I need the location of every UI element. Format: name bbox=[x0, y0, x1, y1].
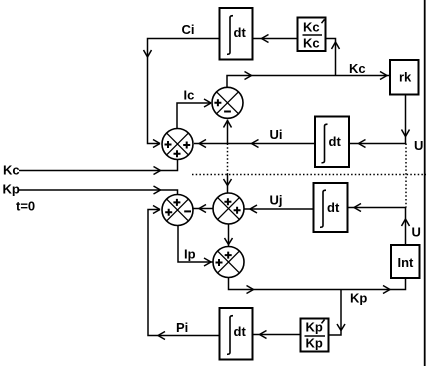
svg-text:Kc: Kc bbox=[349, 61, 366, 76]
wire dotted branch down from Ui line toward S4 bbox=[227, 144, 229, 175]
summer S2 sign - bottom bbox=[224, 111, 231, 113]
block Int bbox=[391, 245, 420, 278]
svg-text:Int: Int bbox=[398, 255, 415, 270]
wire arrowhead into S5 left bbox=[204, 258, 211, 266]
summer S5 sign + left bbox=[216, 259, 223, 266]
svg-text:Ci: Ci bbox=[182, 22, 195, 37]
svg-text:Ui: Ui bbox=[270, 127, 283, 142]
wire branch up from Ui line into S2 bottom bbox=[227, 120, 229, 144]
summer S1 cross bbox=[167, 133, 189, 155]
block rk bbox=[390, 60, 419, 95]
summer S4 cross bbox=[218, 198, 240, 220]
prime mark on Kp' bbox=[322, 320, 325, 324]
block Kc'/Kc bbox=[298, 18, 326, 52]
svg-text:Kc: Kc bbox=[3, 163, 20, 178]
svg-text:Ic: Ic bbox=[184, 88, 195, 103]
summer S4 sign + top bbox=[224, 198, 231, 205]
integrator block Ui bbox=[315, 117, 349, 168]
wire branch from Kc line up into Kc'/Kc box bbox=[326, 39, 336, 76]
summer S3 sign + left bbox=[165, 209, 172, 216]
summer S2 sign + left bbox=[214, 99, 221, 106]
fraction bar Kp'/Kp bbox=[305, 335, 326, 337]
wire Kp'/Kp output to bottom integrator bbox=[253, 334, 301, 336]
wire Ic from S1 top to S2 left bbox=[177, 103, 211, 129]
integral sign Ui integrator bbox=[322, 124, 328, 163]
svg-text:Kp: Kp bbox=[306, 320, 323, 335]
svg-text:Pi: Pi bbox=[176, 320, 188, 335]
integral sign bottom integrator bbox=[227, 316, 233, 355]
wire arrowhead into S1 left bbox=[153, 140, 160, 148]
svg-text:Kp: Kp bbox=[306, 336, 323, 351]
wire arrowhead down on Ci vertical bbox=[144, 50, 152, 57]
wire arrowhead right on Kp line left part bbox=[247, 286, 254, 294]
border right edge bbox=[424, 0, 426, 366]
wire Ip from S3 bottom to S5 left bbox=[178, 226, 213, 263]
wire branch down from Kp line into Kp'/Kp box bbox=[329, 290, 341, 336]
wire arrowhead left into S1 right bbox=[199, 140, 206, 148]
wire rk output down to Ui line bbox=[405, 95, 407, 144]
wire arrowhead right on Kp line near Int bbox=[383, 286, 390, 294]
wire arrowhead left into bottom integrator bbox=[260, 331, 267, 339]
wire arrowhead left into Uj integrator bbox=[354, 204, 361, 212]
wire arrowhead down toward Ui line bbox=[402, 130, 410, 137]
summer S3 sign - right bbox=[184, 210, 191, 212]
svg-text:Kc: Kc bbox=[303, 20, 320, 35]
integrator block bottom (Pi) bbox=[220, 308, 253, 360]
wire arrowhead up on Int output bbox=[402, 219, 410, 226]
block Kp'/Kp bbox=[301, 319, 329, 352]
svg-text:t=0: t=0 bbox=[16, 199, 35, 214]
wire Uj line from integrator to S4 right bbox=[245, 208, 314, 210]
wire arrowhead right on Kp input bbox=[154, 186, 161, 194]
svg-text:dt: dt bbox=[234, 324, 247, 339]
wire dotted U alignment line bbox=[405, 144, 407, 208]
summer S3 (Kp junction) bbox=[162, 195, 193, 226]
wire arrowhead right on Kc input bbox=[154, 167, 161, 175]
prime mark on Kc' bbox=[322, 19, 325, 23]
wire arrowhead into S3 right bbox=[199, 205, 206, 213]
wire Kc'/Kc output to top integrator bbox=[253, 38, 298, 40]
dotted divider horizontal bbox=[192, 174, 426, 176]
wire Ci feedback: top integrator output left and down to summer S1 bbox=[148, 39, 220, 144]
wire Kc input from left into S1 bottom bbox=[19, 160, 178, 171]
svg-text:Kp: Kp bbox=[3, 182, 20, 197]
svg-text:Ip: Ip bbox=[184, 247, 196, 262]
wire arrowhead left mid Ui line bbox=[252, 140, 259, 148]
wire Ui line from U node leftward to S1 bbox=[194, 143, 406, 145]
wire arrowhead right on Kc line bbox=[245, 72, 252, 80]
summer S4 sign + right bbox=[234, 207, 241, 214]
wire Pi feedback from bottom integrator to S3 left bbox=[148, 210, 220, 336]
wire arrowhead left on Pi line bbox=[158, 332, 165, 340]
integral sign top integrator bbox=[227, 16, 233, 55]
summer S1 sign + bottom bbox=[174, 150, 181, 157]
svg-text:dt: dt bbox=[327, 200, 340, 215]
summer S1 sign + left bbox=[165, 141, 172, 148]
wire arrowhead up into S2 bottom bbox=[224, 121, 232, 128]
wire S4 output down into S5 top bbox=[228, 224, 230, 247]
wire arrowhead into S3 left bbox=[153, 206, 160, 214]
summer S5 cross bbox=[218, 251, 240, 273]
integral sign Uj integrator bbox=[320, 190, 326, 227]
wire arrowhead up into Kc'/Kc branch bbox=[332, 42, 340, 49]
summer S1 (Kc junction) bbox=[162, 129, 193, 160]
wire arrowhead down into S5 top bbox=[225, 238, 233, 245]
svg-text:U: U bbox=[412, 225, 421, 240]
svg-text:Kc: Kc bbox=[303, 36, 320, 51]
summer S3 cross bbox=[167, 199, 189, 221]
wire arrowhead down on Kp branch bbox=[337, 324, 345, 331]
svg-text:dt: dt bbox=[329, 134, 342, 149]
integrator block Uj bbox=[314, 183, 348, 232]
svg-text:rk: rk bbox=[399, 70, 412, 85]
wire arrowhead into S2 left bbox=[204, 99, 211, 107]
wire arrowhead left near Ui integrator input bbox=[359, 140, 366, 148]
summer S1 sign + right bbox=[183, 142, 190, 149]
wire arrowhead down into S4 top bbox=[224, 179, 232, 186]
fraction bar Kc'/Kc bbox=[303, 34, 323, 36]
wire arrowhead left toward integrator bbox=[262, 35, 269, 43]
svg-text:U: U bbox=[414, 138, 423, 153]
wire solid segment into S4 top bbox=[227, 175, 229, 194]
summer S3 sign + top bbox=[173, 199, 180, 206]
wire S2 output up then right to rk (Kc line) bbox=[227, 76, 390, 88]
wire Kp input from left into S3 top bbox=[19, 190, 178, 195]
wire arrowhead into rk box bbox=[380, 72, 387, 80]
summer S2 (Ic junction) bbox=[212, 87, 243, 118]
svg-text:Kp: Kp bbox=[350, 291, 367, 306]
svg-text:Uj: Uj bbox=[270, 193, 283, 208]
wire Int output up and left into Uj integrator bbox=[348, 208, 406, 246]
wire S4 output left into S3 right bbox=[194, 208, 214, 210]
wire arrowhead into S4 right bbox=[250, 205, 257, 213]
summer S5 sign + top bbox=[225, 252, 232, 259]
integrator block top (Ci) bbox=[220, 8, 253, 60]
summer S4 (Uj junction) bbox=[213, 193, 244, 224]
wire Kp line from S5 bottom right and up into Int bbox=[229, 278, 406, 290]
svg-text:dt: dt bbox=[234, 25, 247, 40]
summer S2 cross bbox=[217, 92, 239, 114]
summer S5 (Ip junction) bbox=[213, 247, 244, 278]
